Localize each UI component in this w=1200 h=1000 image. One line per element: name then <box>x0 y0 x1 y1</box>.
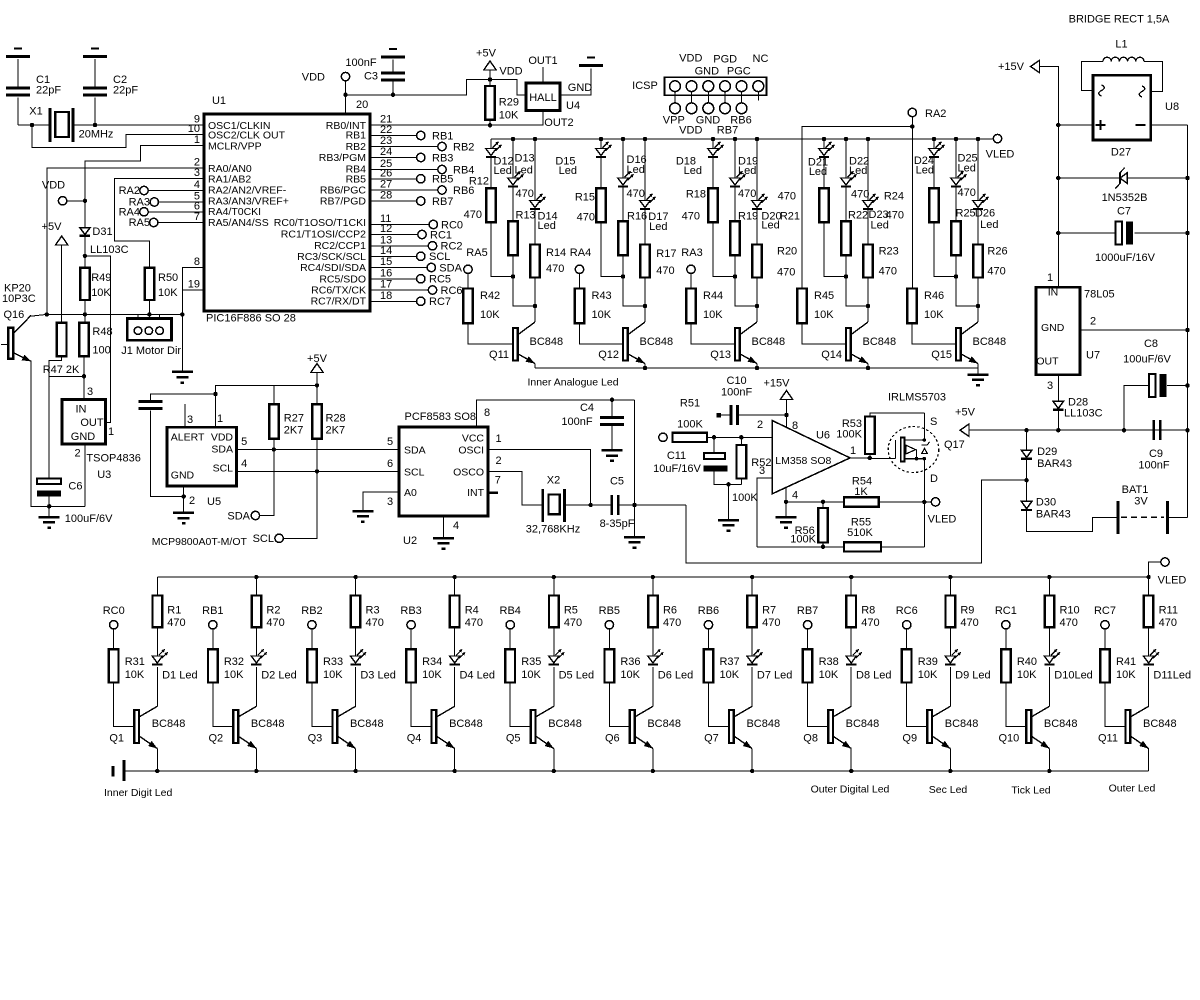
wire col2 mid D25 <box>955 186 957 221</box>
wire emitter Q15 <box>977 364 979 369</box>
svg-text:Q3: Q3 <box>308 733 323 745</box>
svg-text:C5: C5 <box>610 476 624 488</box>
led D14 <box>530 194 546 209</box>
svg-text:IRLMS5703: IRLMS5703 <box>888 392 946 404</box>
svg-text:SCL: SCL <box>213 463 234 475</box>
svg-text:470: 470 <box>464 209 482 221</box>
ic U5 MCP9800 <box>167 413 247 508</box>
node RC7 <box>1094 605 1116 629</box>
label D18 <box>676 156 702 178</box>
svg-text:1: 1 <box>217 413 223 425</box>
transistor Q11 BC848 <box>489 322 563 364</box>
svg-text:+5V: +5V <box>42 221 63 233</box>
wire col2 top D16 <box>622 139 624 178</box>
node RB7 <box>797 605 818 629</box>
label D16 <box>627 154 647 176</box>
resistor R29 <box>485 86 519 122</box>
svg-text:R1: R1 <box>167 605 181 617</box>
junction R56 bottom <box>821 545 825 549</box>
svg-text:X2: X2 <box>547 475 560 487</box>
svg-text:D30: D30 <box>1036 497 1056 509</box>
wire col1 bottom R24 <box>934 222 956 276</box>
wire col2 bottom R16 <box>623 255 645 306</box>
svg-text:BC848: BC848 <box>1044 718 1078 730</box>
wire col1 bottom R21 <box>824 222 846 276</box>
wire MCLR <box>85 146 204 228</box>
wire col1 bottom R12 <box>491 222 513 276</box>
svg-text:470: 470 <box>778 191 796 203</box>
junction emitter Q6 <box>651 769 655 773</box>
junction merge1 Q14 <box>844 274 848 278</box>
wire collector Q11 <box>1148 667 1150 706</box>
svg-text:D5 Led: D5 Led <box>559 669 594 681</box>
wire col2 mid D19 <box>734 186 736 221</box>
svg-text:R35: R35 <box>521 656 541 668</box>
wire U5 pin3 stub <box>184 409 186 427</box>
label R24 <box>884 191 904 222</box>
node RA5 input <box>129 217 158 229</box>
svg-text:3V: 3V <box>1134 496 1148 508</box>
ground above C3 <box>381 49 405 57</box>
led D7 <box>747 649 763 664</box>
wire col3 bottom R17 <box>644 278 646 323</box>
wire pin4 to R54 <box>786 501 844 503</box>
led D6 <box>648 649 664 664</box>
led D20 <box>752 194 768 209</box>
svg-text:OUT1: OUT1 <box>528 55 557 67</box>
wire to node RB5 <box>370 178 417 180</box>
svg-text:SCL: SCL <box>404 467 425 479</box>
svg-text:IN: IN <box>1048 287 1059 299</box>
wire analogue emitter bus <box>535 367 978 369</box>
resistor R18 <box>708 188 718 222</box>
svg-text:S: S <box>930 416 937 428</box>
junction bus col3 D26 <box>976 137 980 141</box>
wire pin stub RC1 <box>1005 629 1007 649</box>
wire C11 top <box>713 437 715 453</box>
label D15 <box>555 156 577 178</box>
svg-text:470: 470 <box>516 188 534 200</box>
svg-text:5: 5 <box>387 436 393 448</box>
label D17 <box>648 211 668 233</box>
ground U2 pin4 <box>433 538 454 549</box>
svg-text:Q12: Q12 <box>598 349 619 361</box>
label D22 <box>849 156 869 178</box>
svg-text:3: 3 <box>1047 380 1053 392</box>
svg-text:R20: R20 <box>777 246 797 258</box>
resistor R47 <box>43 323 80 376</box>
wire collector Q7 <box>751 667 753 706</box>
svg-text:OUT: OUT <box>1036 356 1059 368</box>
svg-text:2: 2 <box>1090 316 1096 328</box>
wire pin stub R43 <box>579 274 581 289</box>
wire col3 top D23 <box>867 139 869 201</box>
svg-text:R38: R38 <box>819 656 839 668</box>
svg-text:Led: Led <box>538 220 556 232</box>
svg-text:RB2: RB2 <box>301 605 322 617</box>
label OUT2 <box>544 117 573 129</box>
svg-text:RC7/RX/DT: RC7/RX/DT <box>311 295 367 307</box>
resistor R9 <box>946 596 979 630</box>
transistor Q3 BC848 <box>308 706 384 748</box>
wire U3 GND pin2 <box>84 444 86 506</box>
svg-text:U1: U1 <box>212 95 226 107</box>
svg-text:Led: Led <box>916 165 934 177</box>
junction merge1 Q12 <box>621 274 625 278</box>
junction bus col2 D22 <box>844 137 848 141</box>
svg-text:1: 1 <box>194 134 200 146</box>
led D12 <box>486 142 502 157</box>
junction cap VDD <box>213 392 217 396</box>
wire col1 top D18 <box>712 139 714 149</box>
wire L1 right <box>1144 61 1162 91</box>
junction bus col2 D13 <box>511 137 515 141</box>
svg-text:R39: R39 <box>918 656 938 668</box>
svg-text:PCF8583 SO8: PCF8583 SO8 <box>405 411 477 423</box>
svg-text:470: 470 <box>987 266 1005 278</box>
wire to node RC1 <box>370 234 418 236</box>
wire C7 line right <box>1135 232 1188 234</box>
svg-text:100: 100 <box>92 345 110 357</box>
label HALL VDD <box>499 66 522 78</box>
resistor R10 <box>1045 596 1080 630</box>
wire R top stub R5 <box>553 577 555 596</box>
wire base Q3 <box>312 683 333 727</box>
wire pin8 <box>182 268 204 291</box>
svg-text:OUT2: OUT2 <box>544 117 573 129</box>
wire to node RB2 <box>370 146 438 148</box>
svg-text:RB1: RB1 <box>432 130 453 142</box>
label D1 <box>162 669 197 681</box>
led D13 <box>508 171 524 186</box>
svg-text:10K: 10K <box>91 287 111 299</box>
wire pin4 gnd stub <box>785 502 787 517</box>
wire D28 bottom <box>1057 410 1059 430</box>
junction VLED bus <box>1146 575 1150 579</box>
svg-text:BC848: BC848 <box>640 336 674 348</box>
svg-text:14: 14 <box>380 245 392 257</box>
node RB6 <box>438 185 475 197</box>
svg-text:LM358 SO8: LM358 SO8 <box>775 455 831 467</box>
svg-text:Led: Led <box>627 164 645 176</box>
wire C8 left <box>1124 386 1149 431</box>
wire col1 bottom R15 <box>601 222 623 276</box>
wire pin20 <box>345 81 347 114</box>
svg-text:RB2: RB2 <box>453 141 474 153</box>
svg-text:D4 Led: D4 Led <box>459 669 494 681</box>
wire pin2 <box>707 436 772 438</box>
svg-text:RC1: RC1 <box>995 605 1017 617</box>
crystal X2 <box>526 475 580 536</box>
svg-text:Q10: Q10 <box>998 733 1019 745</box>
node RA2 top <box>908 108 946 120</box>
svg-text:GND: GND <box>171 470 195 482</box>
wire R top stub R6 <box>652 577 654 596</box>
wire R to led D9 <box>949 627 951 656</box>
ground C4 <box>602 450 623 461</box>
junction C6 bottom <box>47 504 51 508</box>
label 470 R22 <box>848 189 869 222</box>
junction D28 <box>1056 428 1060 432</box>
svg-text:1K: 1K <box>854 486 868 498</box>
svg-text:BC848: BC848 <box>350 718 384 730</box>
svg-text:D27: D27 <box>1111 147 1131 159</box>
junction R49-R48 <box>83 312 87 316</box>
wire R to led D2 <box>255 627 257 656</box>
svg-text:SDA: SDA <box>211 443 233 455</box>
svg-text:Tick Led: Tick Led <box>1011 785 1050 797</box>
junction merge2 Q14 <box>866 304 870 308</box>
node RC1 <box>418 229 452 241</box>
label pin3 U6 <box>759 465 765 477</box>
svg-text:Q5: Q5 <box>506 733 521 745</box>
svg-text:BAR43: BAR43 <box>1036 509 1071 521</box>
wire collector Q10 <box>1048 667 1050 706</box>
resistor R25 <box>951 221 961 255</box>
svg-text:10K: 10K <box>719 669 739 681</box>
wire R56 bottom <box>822 543 824 547</box>
svg-text:J1 Motor Dir: J1 Motor Dir <box>121 345 181 357</box>
label Outer Digital Led <box>811 784 890 796</box>
svg-text:OSCI: OSCI <box>458 445 484 457</box>
led D5 <box>549 649 565 664</box>
svg-text:7: 7 <box>495 475 501 487</box>
svg-text:10K: 10K <box>1116 669 1136 681</box>
svg-text:2: 2 <box>189 495 195 507</box>
label U2 INT stub <box>488 492 498 495</box>
wire pin4 <box>785 488 787 502</box>
junction C8 right <box>1185 383 1189 387</box>
svg-text:SCL: SCL <box>253 533 274 545</box>
svg-text:470: 470 <box>879 266 897 278</box>
led D26 <box>973 194 989 209</box>
wire VDD bus <box>346 80 527 95</box>
wire RA5 to pin7 <box>158 222 204 224</box>
wire to node RC0 <box>370 224 429 226</box>
wire pin21 RB0 <box>370 111 543 126</box>
svg-text:10K: 10K <box>819 669 839 681</box>
svg-text:10K: 10K <box>703 309 723 321</box>
wire base Q8 <box>808 683 829 727</box>
label U2 pin8 <box>484 407 490 419</box>
svg-text:R46: R46 <box>924 290 944 302</box>
label D11 <box>1153 669 1191 681</box>
svg-text:R37: R37 <box>719 656 739 668</box>
svg-text:RA5/AN4/SS: RA5/AN4/SS <box>208 217 269 229</box>
junction bus R8 <box>849 575 853 579</box>
ground R52 <box>718 520 739 531</box>
wire base bus <box>47 313 183 315</box>
svg-text:BC848: BC848 <box>846 718 880 730</box>
svg-text:RC6: RC6 <box>896 605 918 617</box>
resistor R19 <box>730 221 740 255</box>
junction C7 right <box>1185 231 1189 235</box>
svg-text:PGD: PGD <box>713 54 737 66</box>
wire base Q4 <box>411 683 432 727</box>
junction VDD-MCLR <box>83 199 87 203</box>
junction C4 <box>610 398 614 402</box>
svg-text:R27: R27 <box>284 413 304 425</box>
resistor R2 <box>252 596 285 630</box>
svg-text:GND: GND <box>1041 322 1065 334</box>
capacitor C6 <box>37 479 82 497</box>
svg-text:R6: R6 <box>663 605 677 617</box>
svg-text:C11: C11 <box>667 450 686 462</box>
junction bus col3 D23 <box>866 137 870 141</box>
wire ICSP pin stub <box>707 92 709 103</box>
label OUT1 <box>528 55 557 67</box>
junction emitter Q5 <box>552 769 556 773</box>
label D4 <box>459 669 494 681</box>
power +5V hall <box>476 48 497 71</box>
capacitor C9 <box>1138 420 1169 471</box>
svg-text:D13: D13 <box>515 153 535 165</box>
svg-text:BC848: BC848 <box>746 718 780 730</box>
svg-text:OUT: OUT <box>80 417 104 429</box>
label pin1 U6 <box>850 445 856 457</box>
bridge U8 <box>1093 75 1179 140</box>
junction merge2 Q13 <box>755 304 759 308</box>
ic U1 PIC16F886 body <box>204 95 370 325</box>
node RB5 <box>599 605 620 629</box>
node RA3 input <box>129 197 159 209</box>
svg-text:VLED: VLED <box>928 514 957 526</box>
transistor Q2 BC848 <box>208 706 284 748</box>
resistor R54 <box>844 476 879 507</box>
wire R top stub R9 <box>949 577 951 596</box>
transistor Q12 BC848 <box>598 322 673 364</box>
svg-text:OSC2/CLK OUT: OSC2/CLK OUT <box>208 129 286 141</box>
wire base Q15 <box>912 323 956 344</box>
svg-text:R9: R9 <box>960 605 974 617</box>
wire cap top <box>150 394 215 402</box>
wire col3 bottom R20 <box>756 278 758 323</box>
svg-text:RB7: RB7 <box>797 605 818 617</box>
svg-text:Q17: Q17 <box>944 439 965 451</box>
label D21 <box>808 157 828 179</box>
junction merge2 Q12 <box>643 304 647 308</box>
svg-text:470: 470 <box>777 267 795 279</box>
junction R29 pin21 <box>488 123 492 127</box>
svg-text:C9: C9 <box>1149 448 1163 460</box>
wire feedback <box>757 546 844 548</box>
wire U7 out <box>1057 375 1059 401</box>
wire Q16 collector <box>29 314 47 316</box>
junction bus col1 D15 <box>599 137 603 141</box>
svg-text:R21: R21 <box>780 211 800 223</box>
wire analogue top bus <box>491 138 993 140</box>
wire col3 mid D23 <box>867 209 869 245</box>
power +15V top <box>998 60 1040 73</box>
resistor R48 <box>79 323 112 357</box>
label pin4 U6 <box>792 490 798 502</box>
wire L1 left <box>1081 61 1103 90</box>
svg-text:D9 Led: D9 Led <box>955 669 990 681</box>
wire base Q12 <box>580 323 624 344</box>
wire R29 top <box>489 80 491 87</box>
label U2 pin1 <box>495 433 501 445</box>
wire col1 top D12 <box>490 139 492 149</box>
power +5V mid <box>307 353 328 373</box>
capacitor C2 <box>83 74 138 97</box>
svg-text:R51: R51 <box>680 398 700 410</box>
ic U1 right pin numbers <box>380 114 392 302</box>
svg-text:32,768KHz: 32,768KHz <box>526 524 580 536</box>
svg-text:GND: GND <box>695 66 720 78</box>
wire R53 bottom stub <box>869 454 871 458</box>
wire D31 to R49 <box>84 236 86 268</box>
resistor R14 <box>530 245 540 278</box>
junction merge2 Q15 <box>976 304 980 308</box>
capacitor C5b near U5 <box>138 402 162 409</box>
svg-text:A0: A0 <box>404 487 417 499</box>
wire base Q10 <box>1006 683 1027 727</box>
svg-text:15: 15 <box>380 256 392 268</box>
junction bus R2 <box>254 575 258 579</box>
wire col1 bottom R18 <box>713 222 735 276</box>
resistor R38 <box>803 649 839 682</box>
svg-text:470: 470 <box>1059 617 1077 629</box>
svg-text:R36: R36 <box>620 656 640 668</box>
svg-text:3: 3 <box>759 465 765 477</box>
svg-text:R18: R18 <box>686 189 706 201</box>
wire VCC gnd rail <box>634 400 636 537</box>
svg-text:R33: R33 <box>323 656 343 668</box>
wire pin stub RB2 <box>311 629 313 649</box>
label 470 R13 <box>516 188 536 222</box>
junction bus R10 <box>1047 575 1051 579</box>
junction D29 D30 <box>1024 478 1028 482</box>
wire OUT1 stub <box>542 67 544 83</box>
resistor R46 <box>907 289 944 324</box>
junction bus R7 <box>750 575 754 579</box>
wire emitter Q13 <box>756 364 758 369</box>
svg-text:100nF: 100nF <box>345 57 376 69</box>
node RB1 <box>202 605 223 629</box>
junction R28 SCL <box>315 469 319 473</box>
label D14 <box>538 211 558 233</box>
wire to node RB7 <box>370 200 417 202</box>
svg-text:RC1: RC1 <box>430 229 452 241</box>
power +5V right <box>955 407 976 437</box>
svg-text:D10Led: D10Led <box>1054 669 1093 681</box>
junction pin4 <box>784 500 788 504</box>
svg-text:4: 4 <box>194 179 200 191</box>
label pin2 U6 <box>757 419 763 431</box>
wire U2 VCC <box>476 400 634 427</box>
resistor R53 <box>836 417 874 455</box>
label D9 <box>955 669 990 681</box>
node SDA input <box>227 510 259 522</box>
resistor R35 <box>505 649 541 682</box>
svg-text:2K7: 2K7 <box>326 425 346 437</box>
junction bus R4 <box>452 575 456 579</box>
led D23 <box>863 194 879 209</box>
label D10 <box>1054 669 1093 681</box>
svg-text:X1: X1 <box>29 106 42 118</box>
junction bus col1 D21 <box>822 137 826 141</box>
svg-text:2: 2 <box>757 419 763 431</box>
wire R48 bottom to U3 <box>83 356 85 399</box>
svg-text:BAR43: BAR43 <box>1037 458 1072 470</box>
wire C10 left <box>720 414 731 416</box>
svg-text:470: 470 <box>738 188 756 200</box>
label 470 R25 <box>956 187 976 220</box>
wire base Q9 <box>907 683 928 727</box>
svg-text:TSOP4836: TSOP4836 <box>86 453 140 465</box>
wire emitter Q9 <box>949 749 951 772</box>
resistor R22 <box>841 221 851 255</box>
